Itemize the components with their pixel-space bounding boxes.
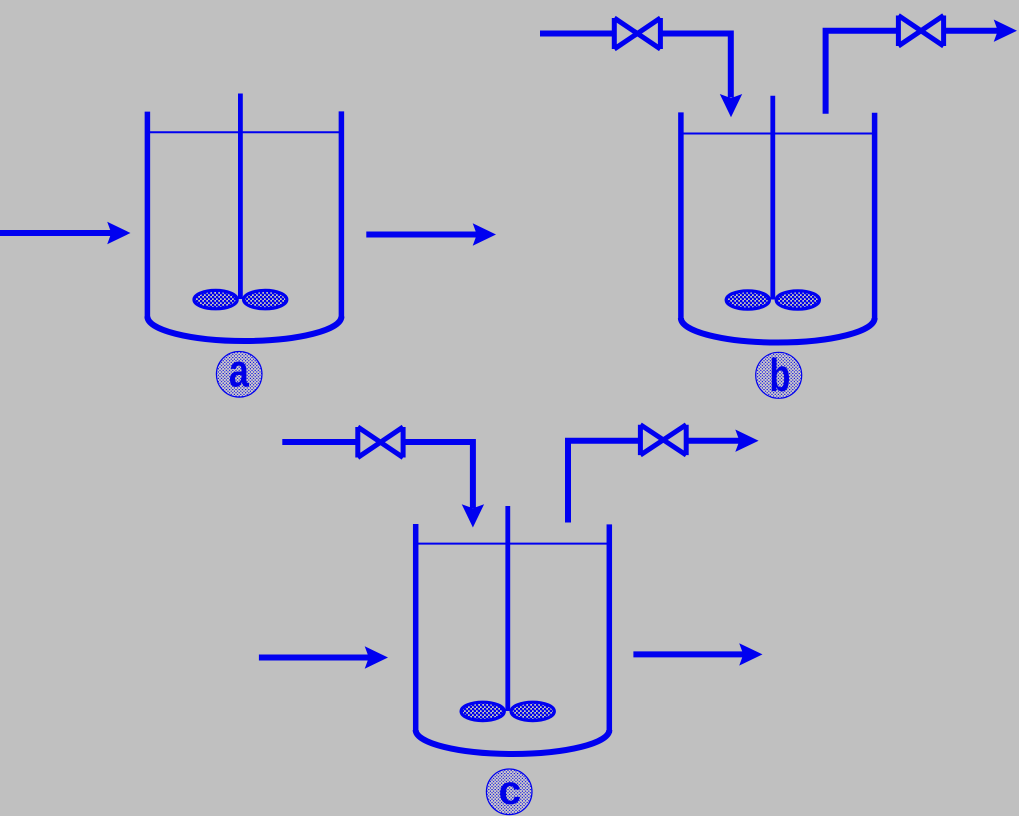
tank c stirrer shaft	[505, 506, 510, 711]
label badge c	[486, 769, 532, 815]
tank c bottom dish	[416, 730, 610, 754]
valve on c feed pipe	[358, 427, 403, 458]
tank c liquid level line	[418, 543, 608, 545]
feed pipe into c (run after valve with elbow down)	[403, 442, 473, 508]
tank b liquid level line	[683, 133, 873, 135]
tank c impeller left blade	[461, 702, 504, 720]
tank a left wall	[145, 112, 151, 319]
tank a impeller left blade	[194, 290, 237, 308]
down arrowhead into b	[720, 94, 742, 117]
tank a bottom dish	[147, 317, 341, 342]
tank b bottom dish	[681, 318, 875, 343]
tank b right wall	[872, 113, 878, 320]
valve on b outlet pipe	[898, 16, 943, 47]
svg-text:c: c	[498, 767, 521, 813]
outlet arrow from a	[366, 232, 477, 238]
label badge a	[216, 352, 262, 398]
tank c right wall	[607, 524, 613, 733]
tank a stirrer shaft	[238, 94, 243, 300]
svg-text:b: b	[769, 349, 790, 401]
feed pipe into b (run after valve with elbow down)	[660, 34, 730, 98]
side feed arrow into c	[259, 655, 370, 661]
outlet pipe from b (riser and horizontal run)	[826, 31, 900, 114]
outlet arrow from c (top)	[686, 438, 740, 444]
tank b stirrer shaft	[770, 96, 775, 300]
tank c left wall	[413, 524, 419, 732]
svg-text:a: a	[229, 345, 250, 396]
feed pipe into c (horizontal run before valve)	[282, 439, 358, 445]
tank c impeller right blade	[511, 702, 554, 720]
tank a liquid level line	[150, 131, 340, 133]
feed pipe into b (horizontal run before valve)	[540, 31, 614, 37]
tank b left wall	[678, 112, 684, 320]
tank b impeller left blade	[726, 291, 769, 309]
down arrowhead into c	[462, 504, 484, 527]
outlet pipe from c (riser and horizontal run)	[568, 441, 642, 523]
tank a impeller right blade	[244, 290, 287, 308]
feed arrow into a	[0, 230, 112, 236]
tank b impeller right blade	[776, 291, 819, 309]
tank a right wall	[339, 111, 345, 318]
valve on b feed pipe	[614, 18, 660, 49]
label badge b	[756, 352, 802, 398]
side outlet arrow from c	[633, 651, 744, 657]
outlet arrow from b	[944, 28, 999, 34]
valve on c outlet pipe	[640, 425, 686, 455]
